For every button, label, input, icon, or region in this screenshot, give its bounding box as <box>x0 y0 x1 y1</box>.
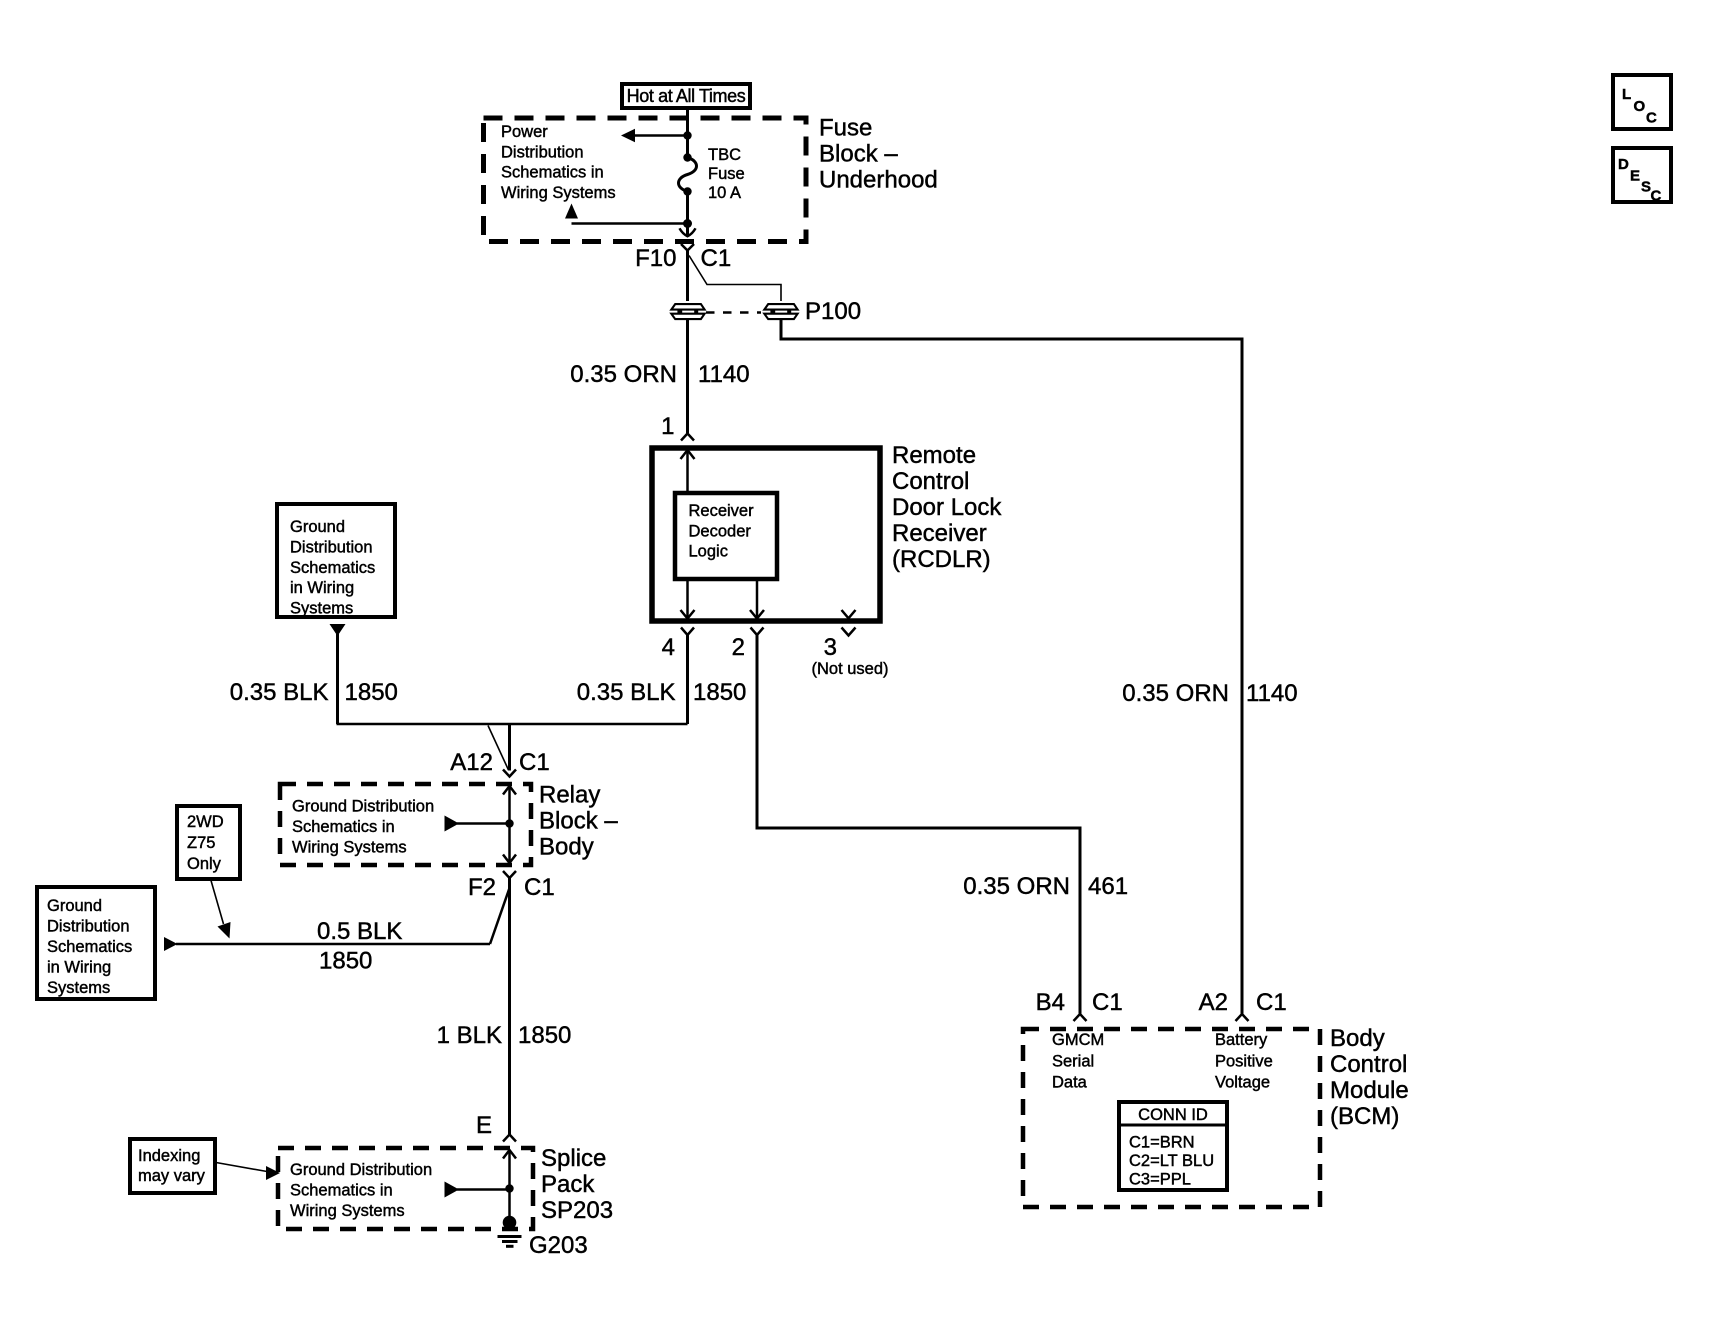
label: Remote Control Door Lock Receiver (RCDLR) <box>892 442 1002 573</box>
wire: fuse output <box>686 192 689 236</box>
wire: arrow to power distribution schematics (lower) <box>565 204 688 224</box>
wire: P100 right half to BCM A2 riser <box>781 320 1242 1014</box>
CONN ID table <box>1119 1102 1227 1190</box>
svg-text:Indexing: Indexing <box>138 1147 200 1165</box>
svg-text:Ground: Ground <box>290 518 345 536</box>
svg-text:Logic: Logic <box>689 543 728 561</box>
svg-text:Fuse: Fuse <box>708 165 745 183</box>
svg-text:0.35 BLK: 0.35 BLK <box>230 679 329 706</box>
label: 1 BLK 1850 <box>437 1022 572 1049</box>
svg-text:Wiring Systems: Wiring Systems <box>290 1202 405 1220</box>
svg-text:0.35 ORN: 0.35 ORN <box>963 873 1070 900</box>
note box: Ground Distribution Schematics in Wiring Systems (upper) <box>277 504 395 618</box>
fuse TBC 10 A <box>679 153 697 195</box>
svg-text:Receiver: Receiver <box>689 502 755 520</box>
svg-text:1850: 1850 <box>319 948 372 975</box>
RCDLR module box <box>652 448 880 621</box>
svg-text:2WD: 2WD <box>187 813 224 831</box>
connector F10 / C1 <box>635 244 731 272</box>
label: Hot at All Times box <box>622 84 750 108</box>
svg-text:P100: P100 <box>805 298 861 325</box>
svg-text:SP203: SP203 <box>541 1197 613 1224</box>
svg-text:3: 3 <box>824 634 837 661</box>
connector: pin E chevron into splice pack <box>503 1135 516 1142</box>
relay block - body (dashed enclosure) <box>280 784 531 865</box>
svg-text:Door Lock: Door Lock <box>892 494 1002 521</box>
svg-text:S: S <box>1641 179 1651 196</box>
svg-text:Body: Body <box>1330 1025 1385 1052</box>
wire: entry arrow inside relay block <box>503 786 516 863</box>
svg-text:Schematics in: Schematics in <box>501 164 604 182</box>
svg-text:Ground Distribution: Ground Distribution <box>290 1161 432 1179</box>
svg-text:Distribution: Distribution <box>290 538 373 556</box>
label: 0.5 BLK 1850 <box>317 918 402 975</box>
label: LOC corner tab <box>1613 75 1671 129</box>
svg-text:B4: B4 <box>1036 989 1065 1016</box>
svg-text:Underhood: Underhood <box>819 167 938 194</box>
svg-text:1140: 1140 <box>1246 680 1298 707</box>
svg-text:C1: C1 <box>1092 989 1123 1016</box>
wire: pointer arrow from 2WD Z75 Only note <box>211 881 231 939</box>
svg-text:A2: A2 <box>1199 989 1228 1016</box>
wire: pointer arrow from Indexing may vary note <box>216 1163 280 1181</box>
svg-text:E: E <box>476 1112 492 1139</box>
svg-text:F10: F10 <box>635 245 676 272</box>
svg-text:G203: G203 <box>529 1232 588 1259</box>
note box: Ground Distribution Schematics in Wiring Systems (lower left) <box>37 887 155 999</box>
label: DESC corner tab <box>1613 148 1671 205</box>
wire: ground bus joining pin 4 wire <box>337 723 688 726</box>
node: GMCM Serial Data <box>1052 1031 1104 1092</box>
svg-text:C1=BRN: C1=BRN <box>1129 1134 1195 1152</box>
label: 0.35 ORN 461 <box>963 873 1128 900</box>
wire: arrow to power distribution schematics (upper) <box>621 129 688 143</box>
svg-text:Receiver: Receiver <box>892 520 987 547</box>
svg-text:0.35 ORN: 0.35 ORN <box>1122 680 1229 707</box>
connector F2 / C1 <box>468 871 555 901</box>
svg-text:Splice: Splice <box>541 1145 606 1172</box>
note: Ground Distribution Schematics in Wiring Systems (splice pack) <box>290 1161 432 1220</box>
svg-text:0.35 BLK: 0.35 BLK <box>577 679 676 706</box>
svg-text:Power: Power <box>501 123 548 141</box>
wire: arrow up into ground distribution note box <box>330 624 346 724</box>
note box: Indexing may vary <box>130 1139 215 1193</box>
wire: 0.35 ORN 461 from pin 2 to BCM B4 <box>757 635 1080 1014</box>
svg-text:Wiring Systems: Wiring Systems <box>501 184 616 202</box>
svg-text:1850: 1850 <box>693 679 746 706</box>
svg-text:Systems: Systems <box>290 600 353 618</box>
svg-text:0.5 BLK: 0.5 BLK <box>317 918 402 945</box>
svg-text:4: 4 <box>662 634 675 661</box>
svg-text:A12: A12 <box>450 749 493 776</box>
svg-text:0.35 ORN: 0.35 ORN <box>570 361 677 388</box>
wire: 0.35 ORN 1140 from P100 to RCDLR pin 1 <box>686 320 689 434</box>
svg-text:461: 461 <box>1088 873 1128 900</box>
svg-text:C3=PPL: C3=PPL <box>1129 1171 1191 1189</box>
wire: pin 4 exit arrow inside RCDLR <box>681 579 695 619</box>
connector A2 / C1 <box>1199 989 1287 1021</box>
svg-text:Body: Body <box>539 834 594 861</box>
connector: pin 2 chevron below RCDLR <box>751 628 764 636</box>
svg-text:1140: 1140 <box>698 361 750 388</box>
svg-text:Pack: Pack <box>541 1171 595 1198</box>
svg-text:1: 1 <box>661 413 674 440</box>
svg-text:Ground: Ground <box>47 897 102 915</box>
svg-text:TBC: TBC <box>708 146 741 164</box>
svg-text:Control: Control <box>892 468 969 495</box>
svg-text:Schematics in: Schematics in <box>290 1181 393 1199</box>
label: Fuse Block - Underhood <box>819 115 938 194</box>
svg-text:10 A: 10 A <box>708 184 741 202</box>
connector: pin 4 chevron below RCDLR <box>681 628 694 636</box>
wire: pin 1 entry arrow inside RCDLR <box>681 450 695 493</box>
svg-text:Block –: Block – <box>819 141 898 168</box>
label: 0.35 BLK 1850 (left) <box>230 679 398 706</box>
connector: pin 3 chevron below RCDLR (not used) <box>842 628 856 636</box>
wire: ORN from F10 down to P100 <box>686 251 689 303</box>
label: 0.35 ORN 1140 (right riser) <box>1122 680 1297 707</box>
svg-text:C2=LT BLU: C2=LT BLU <box>1129 1152 1214 1170</box>
svg-text:E: E <box>1630 168 1640 185</box>
connector P100 left half (grommet) <box>668 301 708 322</box>
wire: arrow tap to ground distribution note (splice pack) <box>445 1182 510 1198</box>
wire: thin splice indicator at A12 <box>488 726 509 771</box>
svg-text:Decoder: Decoder <box>689 522 752 540</box>
svg-text:Voltage: Voltage <box>1215 1074 1270 1092</box>
svg-text:C: C <box>1646 110 1657 127</box>
note: Ground Distribution Schematics in Wiring Systems (relay block) <box>292 798 434 857</box>
wire: fuse block output arrow at F10 <box>680 228 696 236</box>
svg-text:in Wiring: in Wiring <box>47 959 111 977</box>
splice pack SP203 (dashed enclosure) <box>278 1148 533 1229</box>
svg-text:Control: Control <box>1330 1051 1407 1078</box>
svg-text:Positive: Positive <box>1215 1052 1273 1070</box>
svg-text:C1: C1 <box>524 874 555 901</box>
wire: thin branch from F10 to P100 right half <box>689 256 781 303</box>
svg-text:may vary: may vary <box>138 1167 206 1185</box>
svg-text:Schematics: Schematics <box>290 559 375 577</box>
junction: relay block tap <box>505 819 513 827</box>
pin 3 arrow inside RCDLR (not used) <box>842 610 856 618</box>
svg-text:Relay: Relay <box>539 782 600 809</box>
svg-text:C: C <box>1651 188 1662 205</box>
svg-text:CONN ID: CONN ID <box>1138 1106 1208 1124</box>
label: 0.35 ORN 1140 (upper) <box>570 361 749 388</box>
label: 0.35 BLK 1850 (right) <box>577 679 747 706</box>
svg-text:Ground Distribution: Ground Distribution <box>292 798 434 816</box>
ground G203 <box>498 1216 522 1247</box>
junction: fuse block bus top <box>683 131 691 139</box>
svg-text:D: D <box>1618 156 1629 173</box>
connector A12 / C1 <box>450 749 549 777</box>
wire: drop to A12 <box>508 724 511 771</box>
fuse block - underhood (dashed enclosure) <box>484 118 807 242</box>
svg-text:1 BLK: 1 BLK <box>437 1022 502 1049</box>
label: Body Control Module (BCM) <box>1330 1025 1409 1130</box>
svg-text:Battery: Battery <box>1215 1031 1268 1049</box>
svg-text:Remote: Remote <box>892 442 976 469</box>
svg-text:Data: Data <box>1052 1074 1088 1092</box>
svg-text:(RCDLR): (RCDLR) <box>892 546 991 573</box>
svg-text:Schematics in: Schematics in <box>292 818 395 836</box>
svg-text:2: 2 <box>732 634 745 661</box>
wire: 1 BLK 1850 from F2 to splice pack <box>508 878 511 1135</box>
svg-text:Distribution: Distribution <box>47 918 130 936</box>
svg-text:C1: C1 <box>519 749 550 776</box>
wire: pin 2 exit arrow inside RCDLR <box>750 579 764 619</box>
svg-text:1850: 1850 <box>518 1022 571 1049</box>
body control module (dashed enclosure) <box>1023 1029 1320 1207</box>
svg-text:Module: Module <box>1330 1077 1409 1104</box>
node: Battery Positive Voltage <box>1215 1031 1273 1092</box>
svg-text:GMCM: GMCM <box>1052 1031 1104 1049</box>
note: Power Distribution Schematics in Wiring Systems <box>501 123 616 202</box>
svg-text:Fuse: Fuse <box>819 115 872 142</box>
connector P100 right half (grommet) <box>761 301 801 322</box>
connector: pin 1 chevron into RCDLR <box>681 434 694 441</box>
wire: dashed mate line between P100 halves <box>706 311 763 314</box>
svg-text:Serial: Serial <box>1052 1052 1094 1070</box>
svg-text:(BCM): (BCM) <box>1330 1103 1399 1130</box>
connector B4 / C1 <box>1036 989 1123 1021</box>
svg-text:C1: C1 <box>701 245 732 272</box>
wire: entry arrow inside splice pack <box>503 1150 516 1222</box>
svg-text:Systems: Systems <box>47 979 110 997</box>
svg-text:Only: Only <box>187 855 222 873</box>
svg-text:1850: 1850 <box>345 679 398 706</box>
svg-text:Block –: Block – <box>539 808 618 835</box>
label: TBC Fuse 10 A <box>708 146 745 202</box>
label: Relay Block - Body <box>539 782 618 861</box>
svg-text:Schematics: Schematics <box>47 938 132 956</box>
junction: fuse block bus bottom <box>683 219 692 228</box>
svg-text:C1: C1 <box>1256 989 1287 1016</box>
receiver decoder logic block <box>675 493 777 579</box>
svg-text:in Wiring: in Wiring <box>290 579 354 597</box>
wire: arrow tap to ground distribution note (relay block) <box>445 816 510 832</box>
svg-text:Z75: Z75 <box>187 834 215 852</box>
svg-text:F2: F2 <box>468 874 496 901</box>
svg-text:O: O <box>1634 98 1646 115</box>
label: Splice Pack SP203 <box>541 1145 613 1224</box>
svg-text:Hot at All Times: Hot at All Times <box>627 86 746 106</box>
note box: 2WD Z75 Only <box>177 806 240 879</box>
svg-text:Distribution: Distribution <box>501 143 584 161</box>
wire: battery feed from Hot at All Times into fuse block <box>686 108 689 158</box>
wire: 0.35 BLK 1850 from pin 4 <box>686 635 689 724</box>
wire: 0.5 BLK 1850 branch to ground distribution <box>164 888 510 951</box>
junction: splice pack tap <box>505 1184 513 1192</box>
svg-text:(Not used): (Not used) <box>811 660 888 678</box>
svg-text:L: L <box>1622 86 1631 103</box>
svg-text:Wiring Systems: Wiring Systems <box>292 838 407 856</box>
